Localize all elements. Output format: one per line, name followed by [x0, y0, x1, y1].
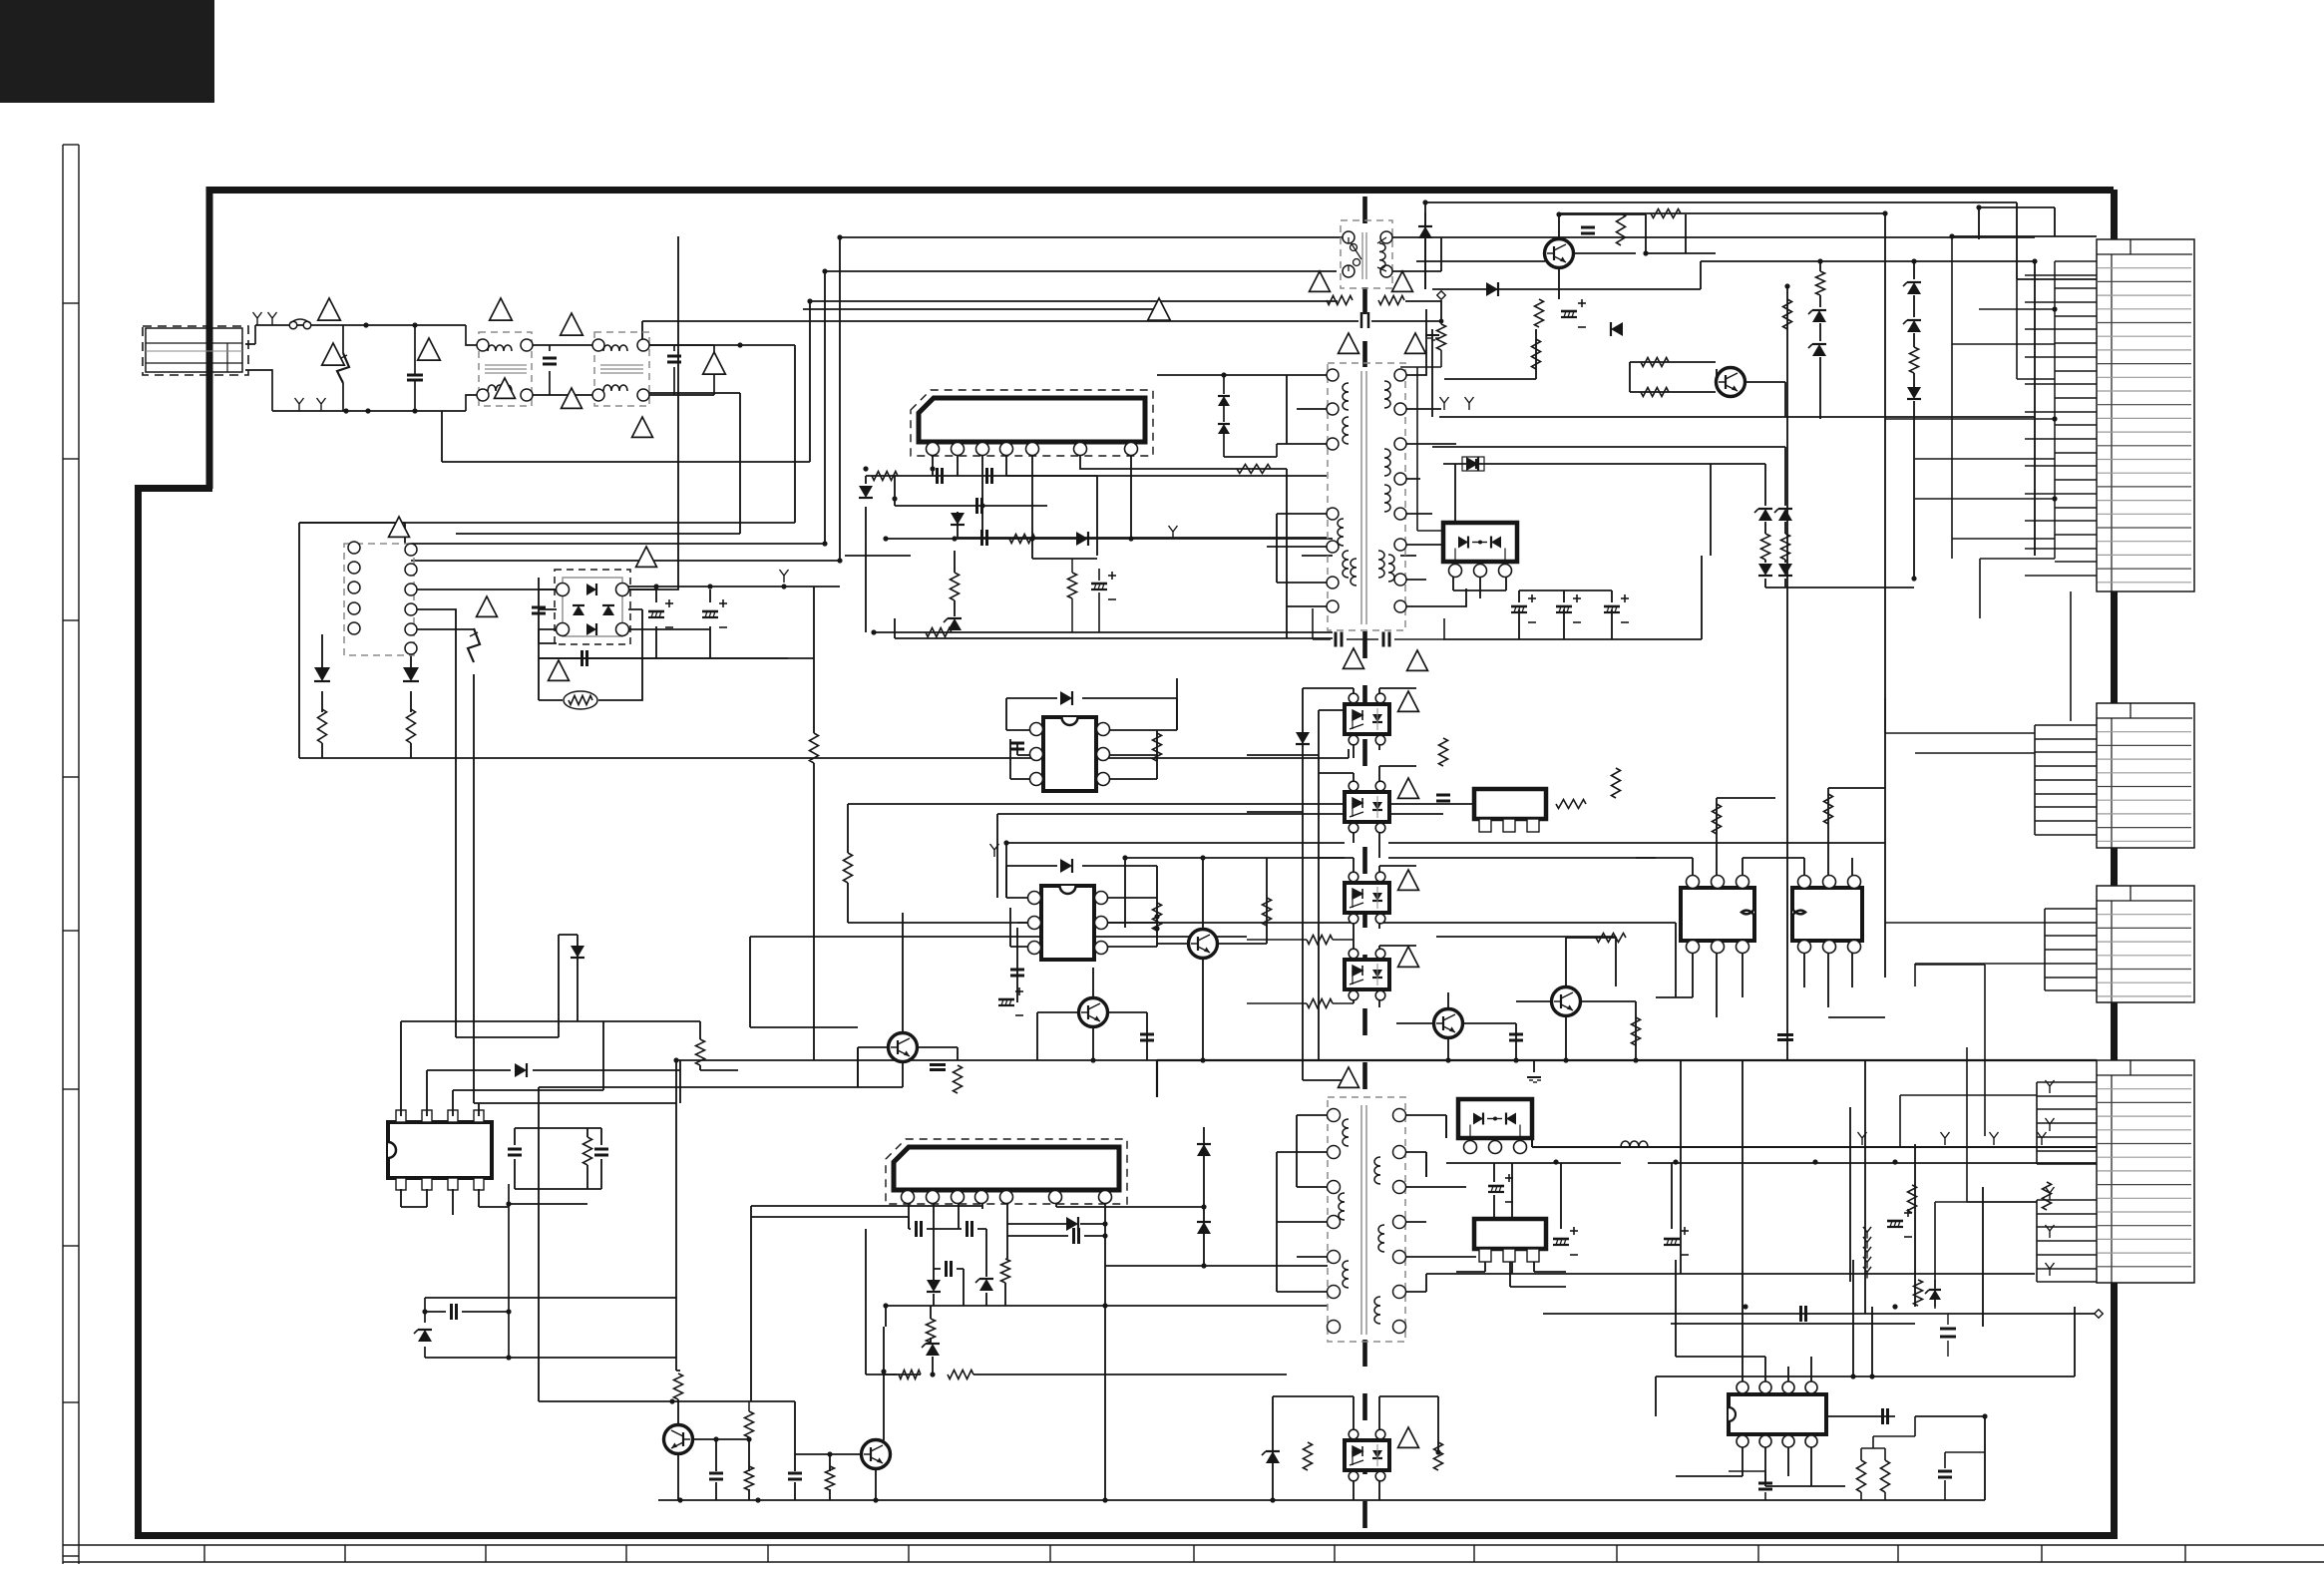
zener ic2 col	[926, 1344, 940, 1356]
diode ic1 b	[951, 513, 965, 525]
wire rail 845	[1006, 843, 1885, 898]
resistor R leftA	[318, 709, 327, 743]
transformer T top core	[1361, 232, 1363, 279]
cap after filter	[667, 355, 681, 358]
cap q3	[1509, 1033, 1523, 1036]
cap dip b	[1010, 969, 1024, 972]
cap reg	[1436, 794, 1450, 797]
cap out h	[1799, 1306, 1802, 1322]
DIP8 IC B	[1041, 886, 1094, 960]
wire lower left long	[539, 1047, 1157, 1401]
schematic border frame	[209, 191, 2114, 490]
surge arrester	[337, 353, 349, 383]
cap lower left	[450, 1304, 453, 1320]
wire opto left col	[1247, 688, 1345, 1080]
wire connector1 pins	[2025, 261, 2097, 576]
transistor Q6	[1079, 998, 1108, 1027]
cap br a	[1758, 1482, 1772, 1485]
wire bottom right block	[1656, 1260, 2075, 1416]
wire rail 919	[848, 923, 1676, 997]
wire c3 pins	[1885, 909, 2097, 990]
warning triangle 6	[562, 388, 582, 408]
transistor Q8	[664, 1425, 693, 1454]
cap across filters	[543, 357, 557, 360]
wire dipf links	[578, 1002, 738, 1103]
res br a	[1857, 1460, 1866, 1492]
ecap out e	[1486, 1238, 1502, 1241]
wire dc rail right	[539, 587, 840, 1060]
zener ic1	[948, 618, 962, 630]
wire rail 806	[848, 804, 1474, 923]
wire bottom long rail	[658, 1416, 1985, 1500]
IC1 dashed outline + body	[911, 390, 1153, 456]
cap dipf	[594, 1148, 608, 1151]
cap Cin	[532, 606, 546, 609]
wire caps dc	[539, 589, 788, 658]
connector C4 rows	[2097, 1074, 2192, 1076]
res q2a	[1641, 358, 1669, 367]
warning triangle bridge	[636, 547, 657, 567]
diode sec2	[1197, 1144, 1211, 1156]
res right mid	[1783, 299, 1792, 329]
diode sec feed	[1466, 457, 1478, 471]
regulator IC top	[1474, 789, 1546, 819]
transistor Q7	[889, 1033, 918, 1062]
diode sec3	[1197, 1222, 1211, 1234]
diode ic2 e	[1066, 1217, 1078, 1231]
wire rail 1142 gy	[1858, 1132, 1867, 1145]
junction dots	[837, 234, 842, 239]
wire q8 q9	[672, 1327, 897, 1500]
connector C3 body	[2097, 886, 2194, 1002]
diode pair mid	[1218, 396, 1230, 406]
cap ic1 c	[975, 498, 978, 514]
res reg c	[1612, 768, 1621, 798]
warning tri t2	[1339, 1067, 1359, 1087]
warning tri pc1	[1398, 778, 1419, 798]
wire input AC section	[245, 325, 714, 411]
line filter L2 pins	[592, 339, 604, 351]
wire ic1 pins	[933, 451, 1287, 638]
warning tri pc0	[1398, 691, 1419, 711]
ecap sec b	[1556, 605, 1572, 608]
res ic2 b	[899, 1371, 921, 1379]
DIP8 IC C	[1681, 888, 1754, 941]
transformer T2 dashed box	[1328, 1097, 1405, 1342]
cap y isolation	[1360, 312, 1363, 328]
connector C2 body	[2097, 703, 2194, 848]
res ic2	[927, 1319, 936, 1343]
wire c2 feed	[1885, 698, 2035, 753]
rect diode boxed	[1462, 457, 1484, 471]
DIP14 IC F	[388, 1122, 492, 1178]
wire dip8a net	[1006, 678, 1177, 779]
res reg b	[1556, 800, 1586, 809]
wire rail 557	[845, 555, 1416, 557]
page edge ruler left	[62, 145, 64, 1564]
wire c4 gy	[2046, 1080, 2055, 1093]
wire caps 641	[1313, 608, 1444, 639]
line filter L1 dashed box	[479, 332, 532, 406]
wire rail 931	[750, 937, 1616, 1027]
diode dip b	[1060, 859, 1072, 873]
AC inlet P1 dashed outline	[143, 326, 248, 375]
wire opto stack	[1303, 688, 1416, 1007]
wire mid right rails	[1432, 329, 2035, 417]
warning tri xfmr2	[1344, 648, 1364, 668]
res q7b	[954, 1065, 963, 1093]
warning tri pc2	[1398, 870, 1419, 890]
res dip a	[1153, 733, 1162, 761]
connector C4 body	[2097, 1060, 2194, 1283]
DIP8 IC A	[1043, 717, 1096, 791]
zener pair	[1758, 509, 1772, 521]
wire rail 816	[997, 814, 1443, 898]
wire reg top net	[1432, 447, 1712, 639]
warning triangle 9	[495, 378, 516, 398]
res q8 base	[745, 1411, 754, 1437]
wire xfmr2 prim	[1277, 1115, 1333, 1292]
main transformer dashed box	[1328, 363, 1405, 630]
cap out v	[1940, 1328, 1956, 1331]
cap ic2 b	[966, 1221, 968, 1237]
wire q5 net	[1157, 858, 1267, 1060]
bridge rectifier dashed box	[555, 570, 630, 644]
transformer T2 windings	[1343, 1119, 1349, 1146]
ecap sec a	[1511, 605, 1527, 608]
relay RY1 pins	[348, 542, 360, 554]
cap C2 input	[407, 374, 423, 377]
wire relay feeds	[299, 523, 1349, 758]
ecap dip b	[998, 998, 1014, 1001]
ecap out d	[1887, 1220, 1903, 1223]
res under gnd	[1437, 324, 1446, 350]
res t-top R	[1378, 296, 1404, 305]
warning triangle 7	[632, 417, 653, 437]
wire q7 net	[858, 913, 958, 1087]
wire dip right nets	[1636, 828, 1885, 1017]
transistor Q4	[1552, 987, 1581, 1016]
res ic2 pin5	[1001, 1259, 1010, 1283]
opto PC3	[1345, 960, 1389, 989]
res q3	[1632, 1017, 1641, 1045]
res q2c	[1532, 339, 1541, 369]
wire q3 net	[1396, 992, 1516, 1060]
wire sec bottom	[1426, 1274, 2095, 1324]
wire dip14c pins	[1676, 1357, 1845, 1486]
zener stack b	[1907, 282, 1921, 294]
resistor ic1 d	[926, 628, 952, 637]
res q8 a	[674, 1373, 683, 1399]
regulator IC bottom	[1474, 1219, 1546, 1249]
IC1 pins	[927, 443, 940, 456]
cap dip e	[1881, 1408, 1884, 1424]
cap q9	[788, 1472, 802, 1475]
wire opto4 net	[973, 1374, 1438, 1500]
resistor ic1 e	[1237, 465, 1271, 474]
cap ic2 c	[945, 1261, 948, 1277]
line filter L2 coils	[603, 345, 627, 351]
diode left col	[571, 946, 584, 958]
bridge diode 4	[602, 605, 614, 615]
res t-top L	[1327, 296, 1353, 305]
resistor opto2 in	[1307, 936, 1333, 945]
wire c4 left verts	[1915, 965, 2037, 1202]
res pc4b	[1434, 1442, 1443, 1470]
ecap tr	[1561, 310, 1577, 313]
thermistor TH1	[564, 691, 597, 709]
switch S2	[468, 628, 480, 662]
node diamond 2	[2095, 1310, 2103, 1318]
res q9b	[826, 1466, 835, 1490]
zener pc4	[1266, 1451, 1280, 1463]
connector C3 rows	[2097, 900, 2192, 902]
wire sec rail2	[1446, 1163, 2105, 1274]
wire relay to bridge	[411, 589, 557, 1103]
wire q1 net	[1416, 214, 1716, 299]
cap ic2 a	[915, 1221, 918, 1237]
wire c4 pins A	[2037, 1082, 2097, 1164]
warning tri xfmr	[1339, 333, 1359, 353]
wire ic2 right	[1005, 1127, 1328, 1306]
wire bridge bottom	[539, 609, 710, 700]
ecap out a	[1488, 1185, 1504, 1188]
ground pins top	[253, 312, 262, 325]
bridge rectifier inner	[563, 578, 622, 636]
wire left col down	[456, 935, 578, 1037]
connector C1 rows	[2097, 253, 2192, 255]
warning tri pc4	[1398, 1427, 1419, 1447]
opto PC4	[1345, 1440, 1389, 1470]
warning triangle relay	[389, 517, 410, 537]
ecap out c	[1664, 1238, 1680, 1241]
resistor ic1 a	[872, 472, 898, 481]
zener out	[1929, 1290, 1941, 1300]
wire bus top E	[441, 411, 443, 462]
cap x641 b	[1382, 632, 1385, 647]
diode D leftA	[314, 667, 330, 681]
wire bus top B	[411, 271, 1337, 544]
wire ic1 osc	[895, 476, 1333, 638]
wire zd stack feed	[1711, 261, 1914, 588]
main transformer pins	[1327, 369, 1339, 381]
resistor drop b	[844, 853, 853, 883]
AC inlet P1 body	[146, 328, 242, 372]
diode ic2	[927, 1280, 941, 1292]
cap q6	[1140, 1033, 1154, 1036]
wire ic2 local	[751, 1206, 1328, 1374]
resistor 910 divider	[1068, 573, 1077, 598]
warning triangle 5	[561, 313, 583, 335]
warning triangle th	[549, 660, 570, 680]
black title corner block	[0, 0, 214, 103]
wire mid gnd	[1533, 1060, 1535, 1072]
res reg a	[1439, 738, 1448, 766]
diode dipf	[515, 1063, 527, 1077]
wire sec rails	[1426, 1115, 2097, 1177]
ecap sec c	[1604, 605, 1620, 608]
diode ic1 c	[1076, 532, 1088, 546]
transistor Q2	[1717, 368, 1745, 397]
diode dip a	[1060, 691, 1072, 705]
res q1	[1617, 213, 1626, 245]
res dipf b	[696, 1039, 705, 1065]
wire dipf	[401, 1021, 700, 1215]
ground pins bottom	[295, 398, 304, 411]
warning triangle switch	[477, 596, 498, 616]
res out a	[1908, 1185, 1917, 1213]
transformer T2 core	[1360, 1105, 1362, 1335]
wire ic1 local	[866, 476, 1333, 632]
warning triangle 8	[703, 352, 726, 374]
warning tri pc3	[1398, 947, 1419, 967]
wire c1 links	[1885, 279, 2071, 721]
ecap main 1	[648, 610, 664, 613]
bridge diode 3	[573, 605, 584, 615]
wire right col A	[1787, 279, 2097, 1060]
diode pack D bottom	[1458, 1099, 1532, 1138]
wire bus top C	[442, 301, 1338, 462]
res pc4	[1304, 1442, 1313, 1470]
wire c4 links	[1900, 1095, 2037, 1307]
ecap ic1	[1091, 583, 1107, 586]
warning triangle ic1	[1148, 298, 1171, 320]
transistor Q1	[1545, 239, 1574, 268]
transformer T top pins	[1343, 231, 1355, 243]
main transformer windings R	[1384, 381, 1390, 408]
wire rail 860	[1125, 858, 1656, 928]
res out b	[2043, 1182, 2052, 1210]
wire dip8b net	[1006, 866, 1157, 1002]
wire br caps	[1729, 1452, 1985, 1500]
res out c	[1914, 1280, 1923, 1306]
diode D leftB	[403, 667, 419, 681]
transistor Q5	[1189, 930, 1218, 959]
wire dip8a diode	[1006, 698, 1177, 730]
resistor drop a	[810, 733, 819, 763]
wire bus top D	[642, 300, 1441, 345]
warning tri t-top	[1310, 271, 1331, 291]
opto PC2	[1345, 883, 1389, 913]
bridge diode 2	[586, 623, 596, 635]
res q4	[1596, 934, 1626, 943]
DIP14 IC E	[1729, 1394, 1826, 1434]
cap Cx	[581, 650, 583, 666]
gy dip	[990, 844, 999, 857]
DIP8 IC D	[1792, 888, 1862, 941]
wire dip right res	[1717, 788, 1885, 838]
wire xfmr sec	[1400, 309, 1466, 606]
wire reg2 net	[1456, 1250, 1566, 1287]
diode top right	[1418, 226, 1432, 238]
gnd y mid	[1440, 397, 1449, 410]
isolation barrier dashed line	[1362, 196, 1367, 224]
diode pack D top	[1443, 523, 1517, 562]
wire ic2 pins	[909, 1195, 1105, 1500]
cap q1	[1581, 226, 1595, 229]
res q1b	[1651, 209, 1681, 218]
warning triangle 1	[318, 298, 341, 320]
relay RY1 dashed box	[344, 544, 414, 655]
bridge diode 1	[586, 584, 596, 595]
diode opto col	[1296, 732, 1310, 744]
warning triangle 2	[322, 343, 345, 365]
cap mid right	[1777, 1033, 1793, 1036]
wire out verticals	[1681, 1060, 1983, 1367]
transistor Q3	[1434, 1009, 1463, 1038]
cap ic2 d	[1072, 1228, 1075, 1244]
wire c2 pins	[2035, 725, 2097, 835]
wire top right B	[1432, 261, 2035, 329]
wire right col B	[1952, 207, 2097, 239]
wire t-top	[1392, 212, 1441, 289]
transistor Q9	[862, 1440, 891, 1469]
res dipf a	[583, 1137, 592, 1165]
warning triangle 4	[490, 298, 513, 320]
wire xfmr prim	[1157, 375, 1333, 606]
res q2b	[1641, 388, 1669, 397]
ground sym dc	[780, 570, 789, 583]
diode ic1	[859, 486, 873, 498]
zener lower left	[418, 1330, 432, 1342]
wire br res	[1861, 1416, 1915, 1500]
opto PC0	[1345, 704, 1389, 734]
wire q4 net	[1516, 938, 1636, 1060]
inductor L out	[1621, 1141, 1648, 1147]
res q6	[1263, 898, 1272, 926]
cap br b	[1938, 1470, 1952, 1473]
gnd chassis	[1425, 334, 1439, 336]
res br b	[1881, 1460, 1890, 1492]
resistor R leftB	[407, 709, 416, 743]
cap ic1 d	[980, 530, 983, 546]
res dip b	[1153, 903, 1162, 931]
wire q6 net	[1037, 968, 1147, 1060]
res dip c	[1713, 804, 1722, 834]
transformer T top dashed box	[1341, 220, 1392, 288]
line filter L1 pins	[477, 339, 489, 351]
fuse F1	[289, 321, 297, 329]
res ic1 row	[1009, 535, 1035, 544]
main transformer windings L	[1343, 383, 1349, 410]
resistor opto3 in	[1307, 999, 1333, 1008]
IC2 dashed outline + body	[886, 1139, 1127, 1204]
cap q8	[709, 1472, 723, 1475]
wire filter out	[299, 345, 795, 534]
wire lower left box	[425, 1184, 676, 1358]
res q8b	[745, 1466, 754, 1490]
ground y ic1	[1169, 526, 1178, 539]
cap x641 a	[1335, 632, 1338, 647]
node diamond	[1437, 291, 1445, 299]
cap dip a	[1010, 742, 1024, 745]
zener ic2	[979, 1279, 993, 1291]
res tr	[1535, 299, 1544, 327]
ecap main 2	[702, 610, 718, 613]
wire mid right vert	[1951, 236, 1953, 559]
page edge ruler bottom	[63, 1544, 2324, 1546]
wire bus top A	[411, 237, 2035, 561]
cap ic1 b	[985, 468, 988, 484]
ecap out b	[1553, 1238, 1569, 1241]
transformer T2 pins	[1328, 1109, 1341, 1122]
connector C2 rows	[2097, 717, 2192, 719]
cap q7	[930, 1063, 946, 1066]
diode mid right	[1486, 282, 1498, 296]
zener stack a	[1816, 271, 1825, 295]
main transformer core	[1360, 371, 1362, 624]
wire xfmr2 sec	[1400, 1115, 1476, 1292]
